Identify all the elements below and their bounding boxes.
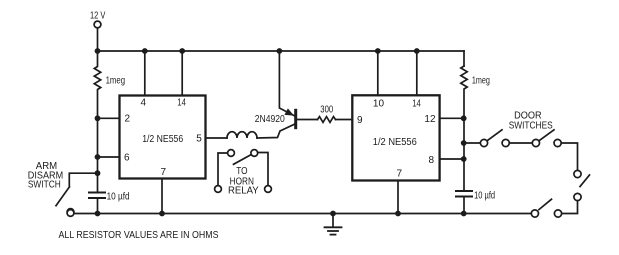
U1 pin 7 stub bbox=[161, 167, 167, 214]
resistor R2 300 bbox=[318, 105, 336, 123]
junction dot rail/pin14 U2 bbox=[414, 48, 420, 54]
junction dot rail/12V bbox=[95, 48, 101, 54]
junction dot pin6 bbox=[95, 154, 101, 160]
wire S2 to S3 bbox=[509, 142, 532, 144]
junction dot rail/pin10 U2 bbox=[375, 48, 381, 54]
relay contacts to horn relay bbox=[215, 150, 272, 193]
wire S5 to rail bbox=[464, 213, 532, 215]
right rail corner down bbox=[463, 51, 465, 66]
wire S3 corner down bbox=[561, 143, 577, 170]
U1 pin 2 stub bbox=[98, 114, 131, 125]
svg-text:10 µfd: 10 µfd bbox=[107, 192, 130, 203]
ground rail bbox=[74, 213, 464, 215]
svg-text:1meg: 1meg bbox=[106, 75, 126, 86]
label door switches bbox=[509, 109, 553, 131]
svg-text:5: 5 bbox=[196, 134, 202, 145]
transistor Q1 2N4920 bbox=[255, 51, 296, 128]
U2 pin 14 stub bbox=[412, 51, 421, 109]
U2 pin 12 stub bbox=[424, 114, 463, 125]
label arm disarm switch bbox=[28, 160, 63, 191]
svg-text:SWITCHES: SWITCHES bbox=[509, 119, 553, 131]
svg-text:6: 6 bbox=[124, 153, 130, 164]
junction dot C1/rail bbox=[95, 211, 101, 217]
junction dot pin12 bbox=[461, 115, 467, 121]
junction dot arm switch bbox=[95, 170, 101, 176]
svg-text:14: 14 bbox=[412, 98, 421, 109]
svg-text:1/2 NE556: 1/2 NE556 bbox=[373, 137, 417, 148]
svg-text:12 V: 12 V bbox=[90, 10, 106, 21]
capacitor C2 10ufd bbox=[456, 191, 495, 214]
+12V top rail bbox=[98, 50, 465, 52]
svg-text:1meg: 1meg bbox=[472, 75, 490, 86]
op IC U1 1/2 NE556 box bbox=[120, 96, 206, 179]
door switch S5 bbox=[531, 199, 561, 217]
ground symbol bbox=[325, 214, 342, 235]
U2 pin 10 stub bbox=[373, 51, 385, 109]
wire R2 to U2 pin 9 bbox=[336, 119, 353, 121]
junction dot C2/rail bbox=[461, 211, 467, 217]
svg-text:2: 2 bbox=[125, 114, 131, 125]
junction dot pin7 U2/rail bbox=[395, 211, 401, 217]
door switch S2 bbox=[480, 130, 509, 147]
U1 pin 6 stub bbox=[98, 153, 131, 164]
svg-text:7: 7 bbox=[161, 167, 167, 178]
junction dot rail/emitter Q1 bbox=[277, 48, 283, 54]
right node vertical wire bbox=[463, 118, 465, 189]
resistor R1 1meg bbox=[94, 51, 125, 118]
junction dot door switches bbox=[461, 140, 467, 146]
wire S4 down corner left bbox=[562, 201, 578, 214]
left node vertical wire bbox=[97, 118, 99, 191]
ground rail terminal bbox=[67, 210, 74, 217]
svg-text:10 µfd: 10 µfd bbox=[474, 191, 495, 202]
junction dot rail/pin4 bbox=[142, 48, 148, 54]
svg-text:10: 10 bbox=[373, 98, 385, 109]
svg-text:300: 300 bbox=[320, 105, 333, 116]
svg-text:1/2 NE556: 1/2 NE556 bbox=[142, 134, 183, 145]
svg-text:2N4920: 2N4920 bbox=[255, 114, 285, 125]
junction dot ground/rail bbox=[330, 211, 336, 217]
wire 12V terminal to rail bbox=[97, 28, 99, 51]
U2 pin 7 stub bbox=[397, 168, 403, 214]
svg-text:7: 7 bbox=[397, 168, 403, 179]
arm/disarm switch S1 bbox=[56, 173, 98, 215]
resistor R3 1meg bbox=[461, 66, 490, 118]
capacitor C1 10ufd bbox=[89, 192, 130, 214]
op IC U2 1/2 NE556 box bbox=[352, 95, 439, 180]
svg-text:ALL RESISTOR VALUES ARE IN OHM: ALL RESISTOR VALUES ARE IN OHMS bbox=[59, 230, 219, 241]
junction dot pin2 bbox=[95, 115, 101, 121]
svg-text:4: 4 bbox=[141, 97, 147, 108]
wire coil to collector bbox=[257, 124, 294, 138]
relay coil K1 bbox=[227, 132, 257, 138]
svg-text:14: 14 bbox=[177, 97, 186, 108]
U2 pin 8 stub bbox=[429, 155, 464, 166]
label TO HORN RELAY bbox=[228, 165, 259, 197]
svg-text:8: 8 bbox=[429, 155, 435, 166]
junction dot pin7 U1/rail bbox=[159, 211, 165, 217]
U1 pin 5 stub bbox=[196, 134, 227, 145]
U1 pin 14 stub bbox=[177, 51, 186, 108]
svg-text:RELAY: RELAY bbox=[228, 185, 259, 197]
svg-text:SWITCH: SWITCH bbox=[28, 179, 61, 191]
U1 pin 4 stub bbox=[141, 51, 147, 108]
junction dot pin8 bbox=[461, 156, 467, 162]
junction dot rail/pin14 U1 bbox=[179, 48, 185, 54]
door switch S4 bbox=[574, 170, 590, 200]
wire base to R2 bbox=[297, 119, 318, 121]
svg-text:12: 12 bbox=[424, 114, 436, 125]
svg-text:9: 9 bbox=[357, 115, 363, 126]
12V terminal bbox=[94, 21, 101, 28]
door switch S3 bbox=[532, 130, 561, 147]
wire to door switch 1 bbox=[464, 142, 481, 144]
